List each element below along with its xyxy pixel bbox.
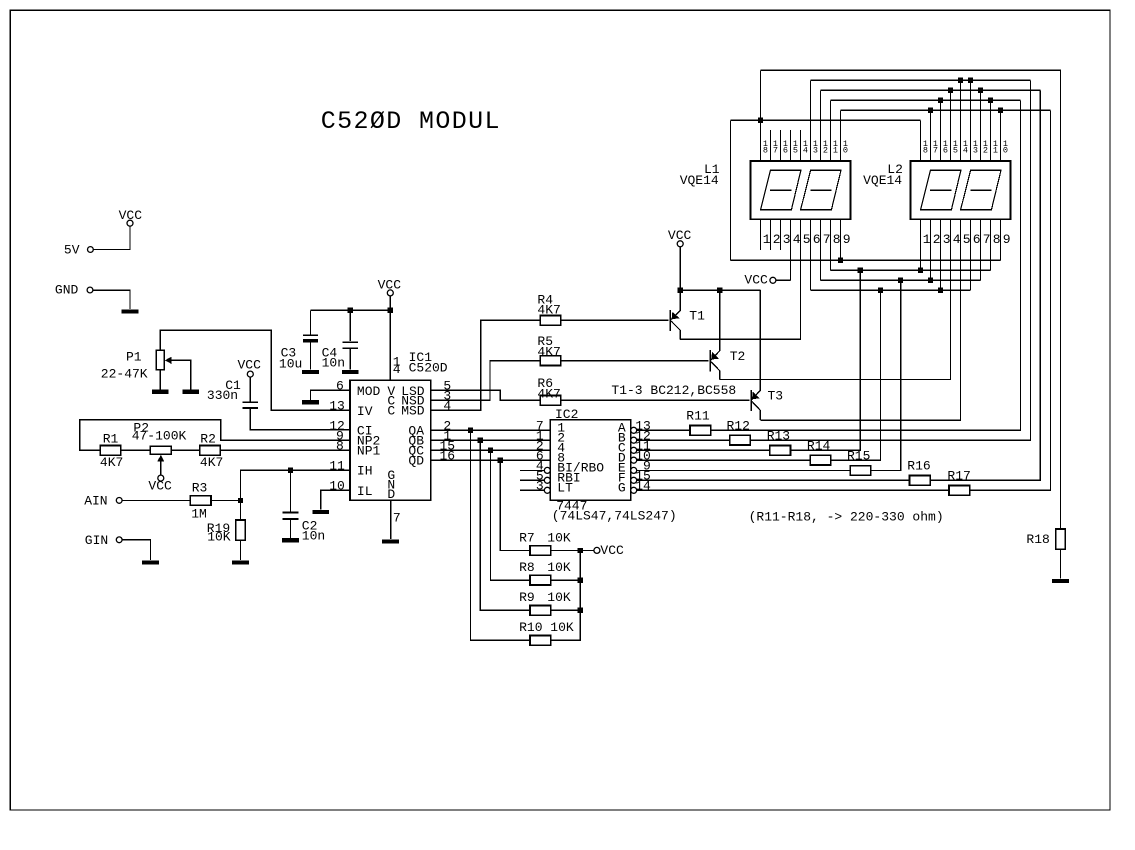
bus B3 (L1 p7 - L2 p2/p7 - R15) xyxy=(821,279,981,281)
IC2 output B bubble, pin 12 xyxy=(631,437,637,443)
svg-text:4K7: 4K7 xyxy=(200,455,223,470)
node R9 VCC junction xyxy=(578,608,583,613)
svg-text:7: 7 xyxy=(773,145,778,155)
node R7 VCC junction xyxy=(578,548,583,553)
svg-text:R13: R13 xyxy=(767,429,790,444)
node QA junction xyxy=(468,428,473,433)
capacitor C4 10n xyxy=(343,341,358,343)
svg-text:R15: R15 xyxy=(847,449,870,464)
wire IC2 B to R12 xyxy=(637,439,730,441)
resistor R12 xyxy=(730,435,751,445)
svg-text:G: G xyxy=(618,481,626,496)
resistor R19 10K xyxy=(236,520,246,540)
wire IC2 G to R17 xyxy=(637,489,949,491)
wire R10 to VCC bus xyxy=(551,550,581,640)
resistor R2 4K7 xyxy=(200,446,221,456)
wire AIN to R3 xyxy=(122,499,190,501)
IC2 output G bubble, pin 14 xyxy=(631,487,637,493)
svg-text:10K: 10K xyxy=(547,530,571,545)
node L1 pin 18 on H6 xyxy=(758,118,763,123)
svg-text:2: 2 xyxy=(933,232,941,247)
wire QB down to R9 xyxy=(480,440,530,610)
wire R9 to VCC bus xyxy=(551,609,581,611)
ground (R18) xyxy=(1052,579,1069,583)
ground (MOD) xyxy=(302,400,319,404)
wire H1 bus down to R18 xyxy=(761,70,1061,529)
L2 pin 8 wire to bus B2 xyxy=(990,219,992,270)
transistor Q3 (T3) xyxy=(750,390,752,411)
svg-text:3: 3 xyxy=(973,145,978,155)
node L2 pin 10 on H5 xyxy=(998,108,1003,113)
wire IL (pin 10) to ground xyxy=(321,490,350,509)
svg-text:4: 4 xyxy=(793,232,801,247)
svg-text:3: 3 xyxy=(943,232,951,247)
wire NP2 loop (IC1 pin 9) xyxy=(80,420,350,451)
svg-text:C: C xyxy=(387,403,395,418)
svg-text:9: 9 xyxy=(1003,232,1011,247)
terminal AIN xyxy=(116,498,122,504)
capacitor C1 330n xyxy=(243,401,259,403)
wire C3 top xyxy=(309,310,311,335)
svg-text:0: 0 xyxy=(843,145,848,155)
wire R7 to VCC bus xyxy=(551,549,581,551)
L2 pin 14 wire (to H2) xyxy=(960,80,962,161)
wire R4 to T1 base xyxy=(561,319,669,321)
svg-text:AIN: AIN xyxy=(84,494,107,509)
svg-text:T1-3 BC212,BC558: T1-3 BC212,BC558 xyxy=(611,383,736,398)
svg-text:R10 10K: R10 10K xyxy=(519,620,574,635)
svg-text:5: 5 xyxy=(953,145,958,155)
node R8 VCC junction xyxy=(578,578,583,583)
svg-text:R14: R14 xyxy=(807,439,831,454)
L1 digit 1 outline xyxy=(761,170,801,210)
IC2 output E bubble, pin 9 xyxy=(631,467,637,473)
potentiometer P1 xyxy=(156,350,164,369)
P2 wiper arrow to VCC xyxy=(157,455,164,462)
svg-text:6: 6 xyxy=(813,232,821,247)
resistor R4 4K7 xyxy=(540,316,561,326)
L1 pin 1 stub xyxy=(760,219,762,250)
wire P1 bottom xyxy=(159,370,161,390)
svg-text:10K: 10K xyxy=(547,590,571,605)
L2 pin 17 wire (to H5) xyxy=(930,110,932,161)
resistor R16 xyxy=(910,476,931,486)
L1 digit 2 outline xyxy=(801,170,841,210)
wire R6 to T3 base xyxy=(561,399,750,401)
wire QA down to R10 xyxy=(470,430,530,640)
svg-text:2: 2 xyxy=(823,145,828,155)
svg-text:7: 7 xyxy=(933,145,938,155)
wire C3 to ground xyxy=(309,343,311,370)
node L2 pin 15 on H3 xyxy=(948,88,953,93)
node L2 pin 14 on H2 xyxy=(958,78,963,83)
node L1 pin 9 on B1 xyxy=(838,258,843,263)
resistor R5 4K7 xyxy=(540,356,561,366)
svg-text:10n: 10n xyxy=(322,355,345,370)
node L2 pin 11 on H4 xyxy=(988,98,993,103)
L1 pin 10 wire (to H5) xyxy=(840,110,842,161)
L2 pin 3 wire to bus B4 xyxy=(940,219,942,290)
svg-text:7: 7 xyxy=(983,232,991,247)
wire VCC to emitter rail xyxy=(679,247,681,290)
wire R14 up to bus B4 xyxy=(831,290,881,460)
capacitor C3 10u (electrolytic) xyxy=(303,334,318,336)
resistor R18 xyxy=(1056,529,1066,549)
node QB junction xyxy=(478,438,483,443)
svg-text:4K7: 4K7 xyxy=(100,455,123,470)
svg-text:IL: IL xyxy=(357,484,373,499)
svg-text:5: 5 xyxy=(803,232,811,247)
svg-text:R8: R8 xyxy=(519,560,535,575)
bus B2 (L1 p8 - L2 p1/p8 - R13) xyxy=(831,269,991,271)
wire QD (pin 16) to IC2 pin 6 xyxy=(431,459,551,461)
wire MOD (pin 6) to ground xyxy=(310,390,350,400)
ground (IL) xyxy=(312,510,329,514)
L2 pin 7 wire to bus B3 xyxy=(980,219,982,280)
bus H6 (decimal point net) xyxy=(730,119,920,121)
svg-text:R3: R3 xyxy=(192,481,208,496)
bus H5 (L1 p10 - L2 p17/p10 - R17) xyxy=(841,109,1051,111)
L2 digit 2 outline xyxy=(961,170,1001,210)
wire R16 to right bus (H3) xyxy=(930,90,1040,480)
wire VCC rail to C3/C4 xyxy=(310,309,390,311)
svg-text:8: 8 xyxy=(336,439,344,454)
svg-text:4: 4 xyxy=(963,145,968,155)
svg-text:3: 3 xyxy=(783,232,791,247)
resistor R9 10K xyxy=(530,606,551,616)
wire QA (pin 2) to IC2 pin 7 xyxy=(431,429,551,431)
svg-text:8: 8 xyxy=(763,145,768,155)
svg-text:1M: 1M xyxy=(191,507,207,522)
wire junction down to R19 xyxy=(239,500,241,520)
svg-text:5V: 5V xyxy=(64,243,80,258)
wire VCC to C1 xyxy=(249,377,251,402)
IC2 output C bubble, pin 11 xyxy=(631,447,637,453)
L2 pin 15 wire (to H3) xyxy=(950,90,952,161)
ground (P1 wiper) xyxy=(182,390,199,394)
svg-text:4: 4 xyxy=(803,145,808,155)
svg-text:8: 8 xyxy=(993,232,1001,247)
power symbol VCC (P2) xyxy=(158,475,164,481)
svg-text:330n: 330n xyxy=(207,388,238,403)
L2 pin 6 wire to bus B4 xyxy=(970,219,972,290)
svg-text:10u: 10u xyxy=(279,356,302,371)
resistor R1 4K7 xyxy=(100,446,121,456)
wire VCC to L1 pin 4 xyxy=(776,279,791,281)
wire emitter rail xyxy=(680,289,760,291)
L1 pin 7 wire to bus B3 xyxy=(820,219,822,280)
IC2 output D bubble, pin 10 xyxy=(631,457,637,463)
wire GND terminal to ground xyxy=(93,290,130,309)
node R3/R19/IH junction xyxy=(238,498,243,503)
svg-text:1: 1 xyxy=(833,145,838,155)
ground (C2) xyxy=(282,538,299,542)
wire R8 to VCC bus xyxy=(551,579,581,581)
wire R11 to right bus (H4) xyxy=(711,100,1021,430)
resistor R11 xyxy=(690,426,711,436)
wire MSD (pin 4) to R4 xyxy=(431,320,541,410)
wire IH junction down to C2 xyxy=(290,470,292,512)
svg-text:8: 8 xyxy=(923,145,928,155)
svg-text:11: 11 xyxy=(329,459,345,474)
L1 pin 5 wire (T1 collector) xyxy=(800,219,802,339)
L2 digit 1 outline xyxy=(921,170,961,210)
bus B1 (L1 p9 - L2 p9) xyxy=(730,259,1000,261)
L2 pin 13 wire (to H2) xyxy=(970,80,972,161)
L2 pin 16 wire (to H4) xyxy=(940,100,942,161)
svg-text:22-47K: 22-47K xyxy=(101,366,148,381)
L1 pin 8 wire to bus B2 xyxy=(830,219,832,270)
P1 wiper arrow xyxy=(165,357,172,364)
svg-text:GND: GND xyxy=(55,283,79,298)
svg-text:T1: T1 xyxy=(689,309,705,324)
svg-text:IV: IV xyxy=(357,404,373,419)
node VCC rail junction xyxy=(388,308,393,313)
L2 pin 2 wire to bus B3 xyxy=(930,219,932,280)
wire IC2 F to R16 xyxy=(637,479,910,481)
node C2 junction on IH wire xyxy=(288,468,293,473)
bus B4 (L1 p6 - L2 p3/p6 - R14) xyxy=(811,289,971,291)
svg-text:6: 6 xyxy=(783,145,788,155)
svg-text:10n: 10n xyxy=(302,529,325,544)
ground (C4) xyxy=(342,370,359,374)
svg-text:R18: R18 xyxy=(1026,532,1049,547)
IC2 output F bubble, pin 15 xyxy=(631,477,637,483)
wire R19 to ground xyxy=(239,540,241,560)
svg-text:6: 6 xyxy=(943,145,948,155)
ground (C3) xyxy=(302,370,319,374)
wire R13 up to bus B2 xyxy=(791,270,861,450)
ground (IC1 pin 7) xyxy=(382,540,399,544)
svg-text:VQE14: VQE14 xyxy=(680,173,719,188)
ground (GIN) xyxy=(142,560,159,564)
terminal 5V xyxy=(88,247,94,253)
L1 pin 12 wire (to H3) xyxy=(820,90,822,161)
node R15 vertical on B3 xyxy=(898,278,903,283)
IC U2 box (IC2 7447) xyxy=(550,420,630,501)
resistor R7 10K xyxy=(530,546,551,556)
display L2 VQE14 box xyxy=(910,161,1010,219)
resistor R15 xyxy=(850,466,871,476)
svg-text:4K7: 4K7 xyxy=(537,345,560,360)
svg-text:QD: QD xyxy=(408,453,424,468)
svg-text:IH: IH xyxy=(357,464,373,479)
node R13 vertical on B2 xyxy=(858,268,863,273)
wire QB (pin 1) to IC2 pin 1 xyxy=(431,439,551,441)
svg-text:R17: R17 xyxy=(947,469,970,484)
wire IC2 D to R14 xyxy=(637,459,810,461)
svg-text:1: 1 xyxy=(923,232,931,247)
svg-text:2: 2 xyxy=(983,145,988,155)
svg-text:R9: R9 xyxy=(519,590,535,605)
wire QC down to R8 xyxy=(490,450,530,580)
wire IC2 E to R15 xyxy=(637,469,851,471)
wire NP1 (IC1 pin 8) xyxy=(220,449,350,451)
power symbol VCC (R7-R10) xyxy=(580,549,594,551)
svg-text:C520D: C520D xyxy=(409,360,448,375)
svg-text:VCC: VCC xyxy=(148,479,172,494)
bus H3 (L1 p12 - L2 p15/p12 - R16) xyxy=(821,89,1041,91)
wire R15 up to bus B3 xyxy=(871,280,901,470)
wire T2 collector to L2 pin 4 xyxy=(720,219,951,379)
wire C2 to ground xyxy=(290,519,292,538)
node L2 pin 1 on B2 xyxy=(918,268,923,273)
capacitor C2 10n xyxy=(283,512,299,514)
L2 pin 18 wire (to H6) xyxy=(920,120,922,161)
resistor R6 4K7 xyxy=(540,396,561,406)
bus H2 (L1 p13 - L2 p14/p13 - R12) xyxy=(811,79,1031,81)
node L2 pin 2 on B3 xyxy=(928,278,933,283)
wire junction up to IH (IC1 pin 11) xyxy=(240,470,350,500)
wire IC2 C to R13 xyxy=(637,449,770,451)
wire QD down to R7 xyxy=(500,460,530,550)
resistor R14 xyxy=(810,455,831,465)
svg-text:1: 1 xyxy=(763,232,771,247)
L2 pin 1 wire to bus B2 xyxy=(920,219,922,270)
svg-text:2: 2 xyxy=(773,232,781,247)
svg-text:R16: R16 xyxy=(907,459,930,474)
svg-text:R2: R2 xyxy=(200,432,216,447)
svg-text:T3: T3 xyxy=(768,389,784,404)
svg-text:0: 0 xyxy=(1003,145,1008,155)
svg-text:NP1: NP1 xyxy=(357,444,381,459)
wire P2 to R2 xyxy=(171,449,200,451)
svg-text:R1: R1 xyxy=(103,432,119,447)
svg-text:4: 4 xyxy=(953,232,961,247)
svg-text:13: 13 xyxy=(329,399,345,414)
svg-text:10: 10 xyxy=(329,479,345,494)
node L2 pin 12 on H3 xyxy=(978,88,983,93)
wire H6 left vertical down to B1 xyxy=(729,120,731,260)
node L2 pin 13 on H2 xyxy=(968,78,973,83)
svg-text:MOD: MOD xyxy=(357,384,381,399)
resistor R3 1M xyxy=(190,496,211,506)
node T1 emitter junction xyxy=(678,288,683,293)
wire T3 collector to L2 pin 5 xyxy=(760,219,960,420)
L1 pin 16 stub xyxy=(780,130,782,161)
wire R12 to right bus (H2) xyxy=(750,80,1030,440)
wire R18 to ground xyxy=(1059,549,1061,579)
node R14 vertical on B4 xyxy=(878,288,883,293)
svg-text:6: 6 xyxy=(336,379,344,394)
bus H4 (L1 p11 - L2 p16/p11 - R11) xyxy=(831,99,1021,101)
svg-text:1: 1 xyxy=(993,145,998,155)
svg-text:3: 3 xyxy=(536,478,544,493)
terminal GND xyxy=(87,287,93,293)
svg-text:VCC: VCC xyxy=(744,272,768,287)
svg-text:LT: LT xyxy=(557,481,573,496)
ground (P1) xyxy=(152,390,169,394)
svg-text:(R11-R18, -> 220-330 ohm): (R11-R18, -> 220-330 ohm) xyxy=(749,510,944,525)
svg-text:6: 6 xyxy=(973,232,981,247)
L1 pin 13 wire (to H2) xyxy=(810,80,812,161)
wire IC2 A to R11 xyxy=(637,429,690,431)
wire VCC rail to IC1 pin 1/4 xyxy=(389,296,391,380)
svg-text:D: D xyxy=(387,487,395,502)
wire NSD (pin 3) to R5 xyxy=(431,361,541,401)
node L2 pin 3 on B4 xyxy=(938,288,943,293)
svg-text:VQE14: VQE14 xyxy=(863,173,902,188)
L1 pin 17 stub xyxy=(770,130,772,161)
display L1 VQE14 box xyxy=(750,161,850,219)
svg-text:VCC: VCC xyxy=(600,543,624,558)
wire R17 to right bus (H5) xyxy=(970,110,1051,490)
svg-text:9: 9 xyxy=(843,232,851,247)
L2 pin 9 wire to bus B1 xyxy=(1000,219,1002,260)
ground (R19) xyxy=(232,560,249,564)
wire VCC to 5V xyxy=(93,226,130,249)
L2 pin 10 wire (to H5) xyxy=(1000,110,1002,161)
wire T1 collector to L1 pin 5 xyxy=(680,219,800,339)
svg-text:5: 5 xyxy=(793,145,798,155)
svg-text:4K7: 4K7 xyxy=(537,386,560,401)
node L2 pin 16 on H4 xyxy=(938,98,943,103)
L2 pin 12 wire (to H3) xyxy=(980,90,982,161)
node QD junction xyxy=(498,458,503,463)
svg-text:3: 3 xyxy=(813,145,818,155)
svg-text:R11: R11 xyxy=(686,408,710,423)
L1 pin 11 wire (to H4) xyxy=(830,100,832,161)
resistor R8 10K xyxy=(530,575,551,585)
wire C1 to IC1 CI pin 12 xyxy=(250,408,350,429)
L1 pin 9 wire to bus B1 xyxy=(840,219,842,260)
svg-text:GIN: GIN xyxy=(85,533,108,548)
wire C4 to ground xyxy=(349,349,351,370)
resistor R17 xyxy=(949,486,970,496)
wire QC (pin 15) to IC2 pin 2 xyxy=(431,449,551,451)
wire R1 to P2 xyxy=(121,449,150,451)
svg-text:47-100K: 47-100K xyxy=(132,428,187,443)
svg-text:R7: R7 xyxy=(519,530,535,545)
svg-text:7: 7 xyxy=(393,511,401,526)
node T2 emitter junction xyxy=(717,288,722,293)
resistor R13 xyxy=(770,446,791,456)
svg-text:R12: R12 xyxy=(727,418,750,433)
IC2 output A bubble, pin 13 xyxy=(631,427,637,433)
svg-text:4: 4 xyxy=(393,362,401,377)
transistor Q2 (T2) xyxy=(709,350,711,371)
L1 pin 15 stub xyxy=(790,130,792,161)
svg-text:10K: 10K xyxy=(207,530,231,545)
wire R3 to junction xyxy=(211,499,240,501)
wire R5 to T2 base xyxy=(561,360,709,362)
L1 pin 3 stub xyxy=(780,219,782,250)
svg-text:7: 7 xyxy=(823,232,831,247)
wire C4 top xyxy=(349,310,351,341)
L1 pin 2 stub xyxy=(770,219,772,250)
wire GIN to ground xyxy=(122,540,150,560)
potentiometer P2 47-100K xyxy=(150,446,171,454)
node L2 pin 17 on H5 xyxy=(928,108,933,113)
svg-text:(74LS47,74LS247): (74LS47,74LS247) xyxy=(552,508,677,523)
wire LSD (pin 5) to R6 xyxy=(431,390,541,400)
wire IC1 GND pin 7 xyxy=(390,500,392,539)
svg-text:T2: T2 xyxy=(730,349,746,364)
ground (GND terminal) xyxy=(122,310,139,314)
svg-text:4K7: 4K7 xyxy=(537,303,560,318)
L2 pin 11 wire (to H4) xyxy=(990,100,992,161)
svg-text:C52ØD MODUL: C52ØD MODUL xyxy=(321,107,501,136)
resistor R10 10K xyxy=(530,636,551,646)
svg-text:VCC: VCC xyxy=(238,357,262,372)
node QC junction xyxy=(488,448,493,453)
svg-text:MSD: MSD xyxy=(401,403,425,418)
L1 pin 6 wire to bus B4 xyxy=(810,219,812,290)
wire P1 top to IC1 IV xyxy=(160,330,350,410)
svg-text:10K: 10K xyxy=(547,560,571,575)
transistor Q1 (T1) xyxy=(669,310,671,331)
svg-text:5: 5 xyxy=(963,232,971,247)
